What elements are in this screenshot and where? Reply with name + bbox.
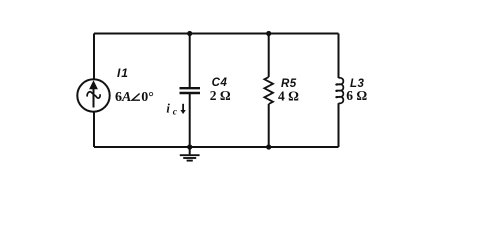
wire: left branch upper segment (top bus to I1 top) [93,34,95,80]
value 6A∠0° of I1 [115,90,154,105]
ground bar 1 [180,154,200,156]
current label i_c with down arrow [166,101,185,117]
wire: capacitor branch upper segment [189,34,191,88]
wire: inductor branch lower segment [338,103,340,147]
inductor L3 coil [336,78,343,104]
ground bar 3 [187,160,193,162]
current source I1 arrow head [89,80,98,89]
wire: capacitor branch lower segment [189,94,191,147]
svg-text:ic: ic [166,101,177,117]
wire: left branch lower segment (I1 bottom to bottom bus) [93,112,95,148]
svg-text:I1: I1 [117,66,129,80]
capacitor C4 top plate [180,87,201,89]
ground stem [189,147,191,154]
svg-text:6A: 6A [115,90,131,105]
ground bar 2 [183,157,196,159]
wire: resistor branch lower segment [268,104,270,147]
node: bottom resistor junction [266,144,271,149]
node: top resistor junction [266,31,271,36]
current source I1 AC tilde [87,92,100,98]
current source I1 circle [77,79,109,111]
wire: inductor branch upper segment [338,34,340,79]
wire: bottom bus from left corner to right corner [94,146,339,148]
resistor R5 zigzag [264,77,273,104]
node: top capacitor junction [187,31,192,36]
current source I1 arrow shaft [93,89,95,108]
wire: top bus from left corner to right corner [94,33,339,35]
svg-text:6 Ω: 6 Ω [346,88,367,103]
svg-text:2 Ω: 2 Ω [210,88,231,103]
svg-text:4 Ω: 4 Ω [278,88,299,103]
wire: resistor branch upper segment [268,34,270,78]
node: bottom capacitor/ground junction [187,144,192,149]
capacitor C4 bottom plate [180,92,201,94]
svg-text:0°: 0° [141,90,154,105]
